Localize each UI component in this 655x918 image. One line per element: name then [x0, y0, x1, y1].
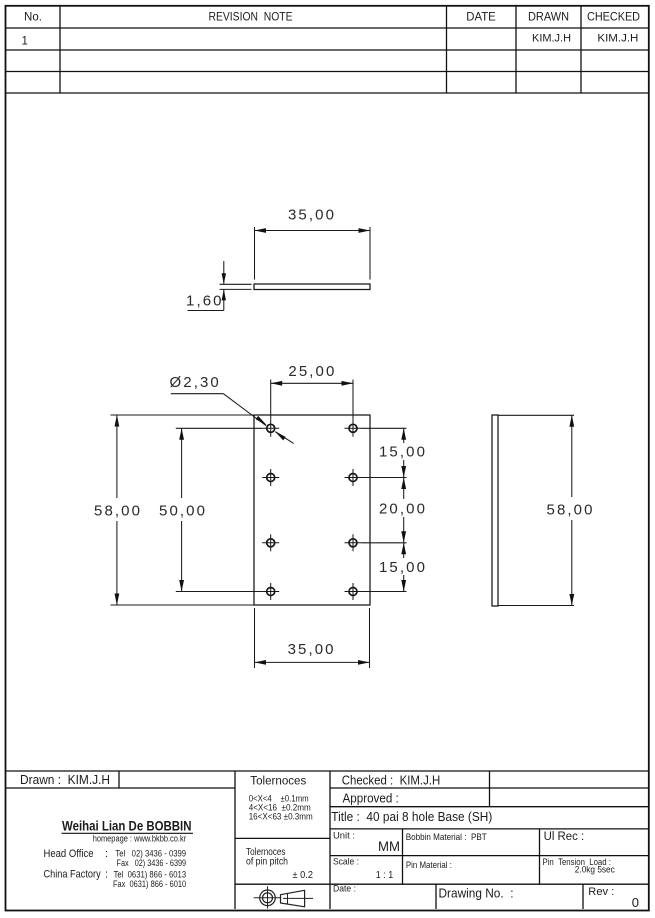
- svg-text:35,00: 35,00: [288, 641, 336, 658]
- svg-text:DATE: DATE: [466, 12, 496, 24]
- tolerance dividers: [235, 837, 330, 839]
- svg-text:Tolernoces: Tolernoces: [250, 775, 306, 787]
- svg-text:Approved :: Approved :: [343, 791, 399, 805]
- right side view outline: [492, 415, 498, 606]
- dim 25,00 (hole columns): [271, 380, 353, 420]
- svg-text:0: 0: [632, 895, 639, 910]
- svg-text:1,60: 1,60: [186, 293, 224, 310]
- svg-text:50,00: 50,00: [159, 503, 207, 520]
- approved row bottom: [330, 806, 649, 808]
- dim 58,00 (front view left): [111, 415, 254, 605]
- svg-text:1: 1: [22, 36, 28, 48]
- title row bottom: [330, 828, 649, 830]
- hole r2c1: [262, 469, 279, 486]
- scale row bottom: [330, 883, 649, 885]
- svg-text:MM: MM: [378, 839, 400, 854]
- svg-text:Drawn : KIM.J.H: Drawn : KIM.J.H: [20, 773, 110, 787]
- svg-text:Rev :: Rev :: [588, 886, 614, 898]
- svg-text:REVISION NOTE: REVISION NOTE: [209, 12, 293, 24]
- title block top line: [6, 770, 649, 772]
- revision table vertical lines: [59, 6, 61, 93]
- dim 15,00 (right, rows 1-2): [362, 428, 407, 477]
- svg-text::: :: [105, 869, 108, 881]
- svg-text:KIM.J.H: KIM.J.H: [597, 33, 638, 45]
- svg-text:58,00: 58,00: [94, 503, 142, 520]
- vertical: unit/scale divider: [402, 829, 404, 884]
- front view holes: 8 holes with crosshairs: [262, 420, 361, 600]
- svg-text:25,00: 25,00: [288, 363, 336, 380]
- svg-text:KIM.J.H: KIM.J.H: [532, 32, 571, 44]
- svg-text:Checked : KIM.J.H: Checked : KIM.J.H: [342, 773, 441, 787]
- projection symbol: [254, 886, 313, 908]
- svg-text:Title : 40 pai 8 hole Base (S: Title : 40 pai 8 hole Base (SH): [331, 810, 492, 824]
- revision table header text: [24, 12, 640, 24]
- dim 50,00 (hole rows, left): [176, 428, 262, 591]
- svg-text:35,00: 35,00: [288, 207, 336, 224]
- svg-text:Fax 02) 3436 - 6399: Fax 02) 3436 - 6399: [117, 858, 187, 868]
- vertical: rev divider: [582, 884, 584, 909]
- svg-text:15,00: 15,00: [379, 444, 427, 461]
- front view plate outline: [254, 415, 370, 605]
- svg-text:Unit :: Unit :: [333, 830, 355, 841]
- revision table horizontal lines: [6, 27, 649, 29]
- vertical: material / UL divider: [539, 829, 541, 884]
- revision row 1 entries: [22, 32, 639, 47]
- vertical: tolerance column: [234, 771, 236, 909]
- svg-text::: :: [105, 848, 108, 860]
- svg-text:No.: No.: [24, 12, 42, 24]
- drawn row bottom (left): [6, 787, 235, 789]
- unit row bottom: [330, 855, 649, 857]
- vertical: date / drawing no divider: [435, 884, 437, 909]
- svg-text:Fax 0631) 866 - 6010: Fax 0631) 866 - 6010: [113, 879, 186, 889]
- checked row bottom: [330, 787, 649, 789]
- hole r4c1: [262, 583, 279, 600]
- vertical: checked/approved right cells: [489, 771, 491, 807]
- svg-text:Weihai Lian De BOBBIN: Weihai Lian De BOBBIN: [62, 818, 192, 833]
- svg-text:Tel 02) 3436 - 0399: Tel 02) 3436 - 0399: [115, 849, 186, 859]
- svg-text:1 : 1: 1 : 1: [376, 869, 394, 881]
- svg-text:CHECKED: CHECKED: [587, 12, 640, 24]
- hole r1c2: [345, 420, 362, 437]
- dim 58,00 (side view right): [499, 415, 575, 605]
- svg-text:Pin Material :: Pin Material :: [406, 860, 452, 871]
- dim 35,00 (top view): [255, 227, 371, 280]
- dim 1,60 (plate thickness): [188, 261, 252, 311]
- dim 15,00 (right, rows 3-4): [362, 543, 407, 592]
- vertical: drawn cell divider: [118, 771, 120, 788]
- svg-text:58,00: 58,00: [547, 502, 595, 519]
- svg-text:20,00: 20,00: [379, 500, 427, 517]
- svg-text:Bobbin Material : PBT: Bobbin Material : PBT: [406, 832, 487, 843]
- svg-text:Ø2,30: Ø2,30: [170, 374, 221, 391]
- hole r2c2: [345, 469, 362, 486]
- svg-text:2.0kg 5sec: 2.0kg 5sec: [575, 865, 615, 875]
- svg-text:Head Office: Head Office: [44, 848, 94, 860]
- svg-text:Drawing No. :: Drawing No. :: [439, 886, 514, 901]
- svg-text:Date :: Date :: [333, 884, 356, 895]
- svg-text:Scale :: Scale :: [333, 857, 359, 868]
- hole r3c2: [345, 534, 362, 551]
- svg-text:15,00: 15,00: [379, 559, 427, 576]
- svg-text:Ul Rec :: Ul Rec :: [544, 831, 585, 843]
- svg-text:of pin pitch: of pin pitch: [246, 857, 288, 868]
- svg-text:Tel 0631) 866 - 6013: Tel 0631) 866 - 6013: [114, 869, 187, 879]
- plate side view (top) outline: [254, 284, 370, 290]
- svg-text:China Factory: China Factory: [44, 869, 102, 881]
- hole r4c2: [345, 583, 362, 600]
- svg-text:± 0.2: ± 0.2: [293, 869, 314, 881]
- hole r1c1: [262, 420, 279, 437]
- svg-text:DRAWN: DRAWN: [528, 12, 569, 24]
- hole r3c1: [262, 534, 279, 551]
- svg-text:homepage : www.bkbb.co.kr: homepage : www.bkbb.co.kr: [93, 833, 187, 843]
- dim 20,00 (right, rows 2-3): [362, 478, 407, 543]
- dim 35,00 (front view bottom): [255, 608, 370, 668]
- svg-text:16<X<63 ±0.3mm: 16<X<63 ±0.3mm: [249, 812, 313, 823]
